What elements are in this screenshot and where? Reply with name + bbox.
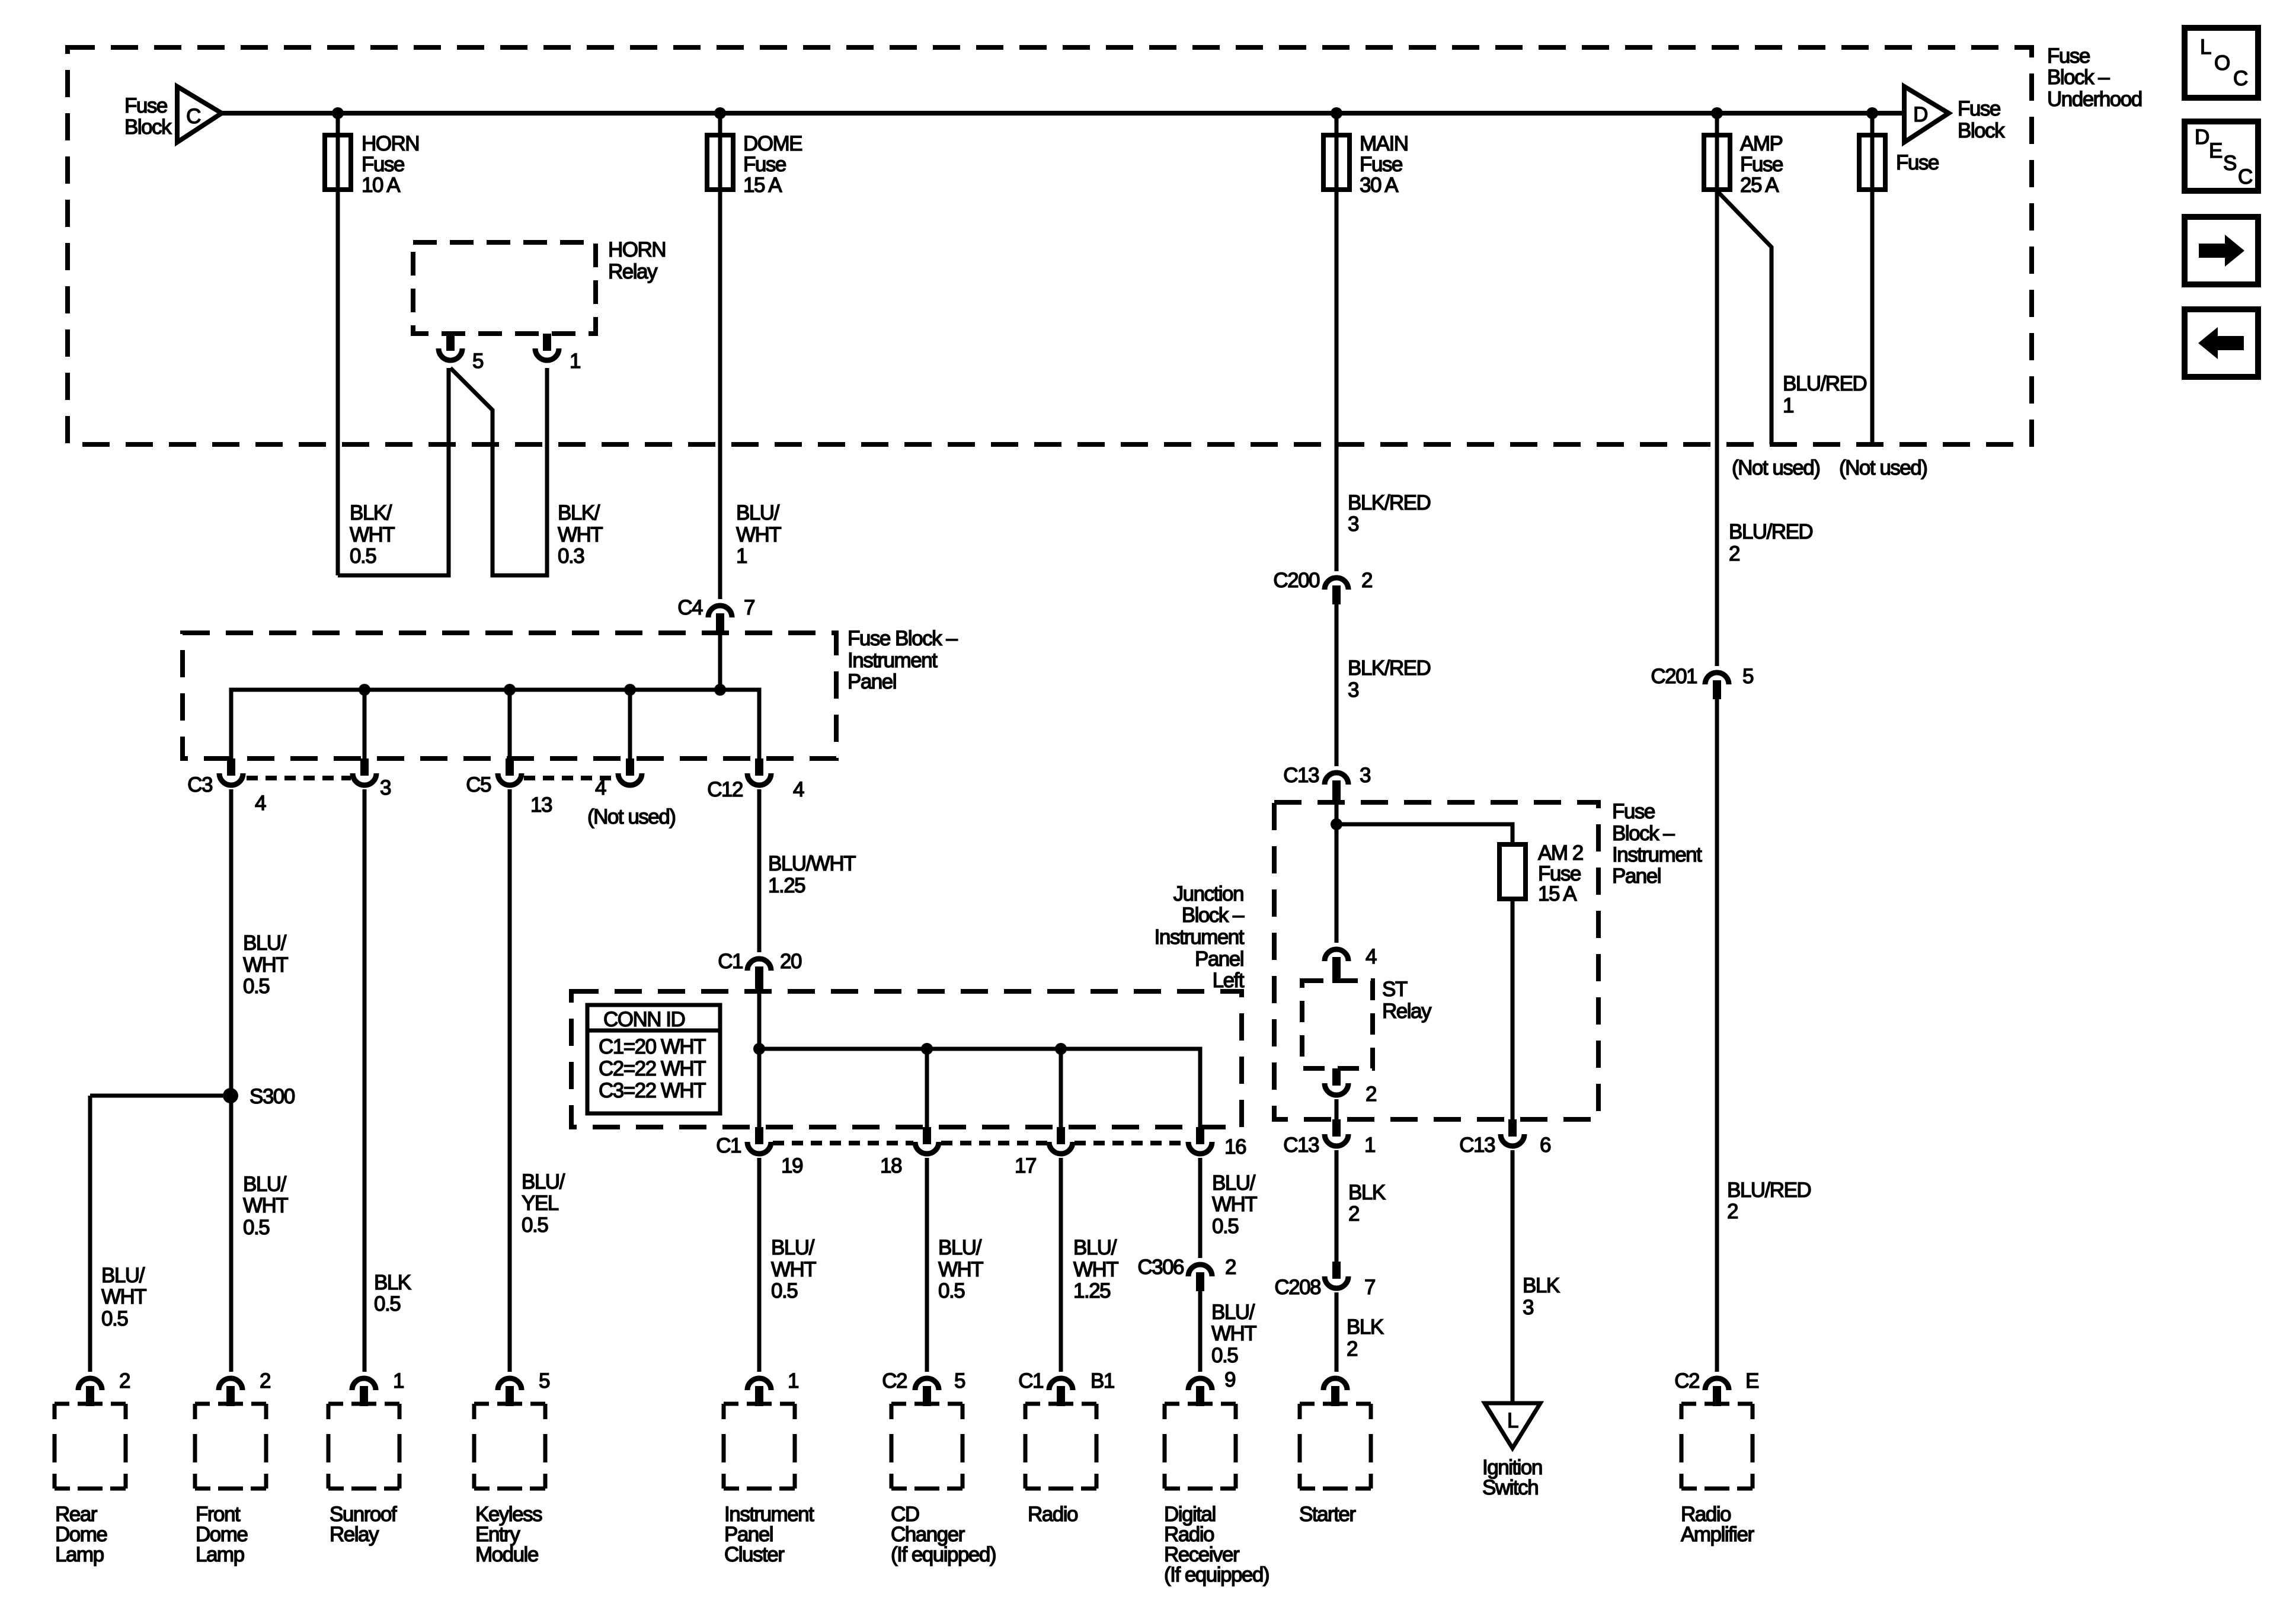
svg-text:ST: ST — [1382, 978, 1408, 1001]
junction dot — [921, 1043, 933, 1055]
svg-text:2: 2 — [260, 1369, 270, 1393]
dotted row C3-3 — [247, 776, 351, 780]
svg-text:L: L — [2200, 36, 2211, 59]
svg-text:C2: C2 — [1674, 1369, 1699, 1393]
wire C13-3 to ST relay pin4 — [1335, 805, 1339, 943]
wire C306 to digital radio receiver — [1198, 1289, 1203, 1372]
svg-text:3: 3 — [1360, 764, 1370, 787]
junction dot — [359, 684, 370, 696]
svg-text:C3=22 WHT: C3=22 WHT — [599, 1079, 706, 1102]
box Digital Radio Receiver — [1165, 1404, 1236, 1489]
svg-text:AM 2: AM 2 — [1538, 841, 1583, 865]
svg-text:Block: Block — [124, 116, 172, 139]
svg-text:Fuse: Fuse — [124, 94, 167, 117]
svg-text:C1: C1 — [716, 1134, 741, 1157]
connector C1 pin 20 — [747, 959, 771, 994]
wire tap pin4 not used — [628, 690, 632, 758]
svg-text:BLK/RED: BLK/RED — [1348, 491, 1430, 514]
wire 16 to C306 — [1198, 1158, 1203, 1258]
svg-text:2: 2 — [1729, 542, 1739, 565]
connector radio C1 pin B1 — [1049, 1378, 1073, 1406]
svg-text:Junction: Junction — [1173, 882, 1243, 905]
off-page triangle D fuse block — [1904, 87, 1949, 142]
svg-text:C: C — [186, 105, 200, 128]
svg-text:4: 4 — [255, 792, 266, 815]
svg-text:WHT: WHT — [558, 523, 603, 546]
connector C13 pin 3 — [1325, 773, 1348, 805]
svg-text:Instrument: Instrument — [1612, 843, 1702, 866]
dashed box Fuse Block - Underhood — [68, 47, 2032, 444]
svg-text:15 A: 15 A — [743, 174, 782, 197]
svg-text:BLU/: BLU/ — [101, 1264, 145, 1287]
svg-text:1: 1 — [736, 545, 747, 568]
junction dot — [332, 107, 344, 119]
svg-text:1: 1 — [393, 1369, 404, 1393]
wire pin5 to pin1 loop — [450, 368, 547, 575]
wire unnamed fuse not used — [1870, 113, 1875, 444]
wire AM2 fuse to C13-6 — [1511, 899, 1515, 1119]
svg-text:3: 3 — [1348, 513, 1358, 536]
junction dot — [714, 107, 726, 119]
box Radio — [1025, 1404, 1096, 1489]
svg-text:CONN ID: CONN ID — [603, 1008, 685, 1031]
junction dot — [1866, 107, 1878, 119]
wire C4 into IP fuse block — [718, 635, 722, 690]
svg-text:0.5: 0.5 — [1212, 1215, 1238, 1238]
box CD Changer — [891, 1404, 962, 1489]
svg-text:D: D — [2195, 126, 2209, 149]
svg-text:1.25: 1.25 — [1073, 1279, 1110, 1302]
svg-text:BLU/: BLU/ — [522, 1170, 565, 1193]
svg-text:BLK/: BLK/ — [558, 501, 600, 524]
connector C201 pin 5 — [1705, 673, 1729, 699]
connector rear dome lamp pin 2 — [78, 1378, 102, 1406]
box Sunroof Relay — [328, 1404, 399, 1489]
connector C306 pin 2 — [1188, 1265, 1212, 1291]
svg-text:E: E — [2209, 139, 2222, 162]
svg-text:C1: C1 — [1018, 1369, 1043, 1393]
svg-text:Block: Block — [1958, 119, 2005, 142]
svg-text:Relay: Relay — [330, 1523, 379, 1546]
connector horn relay pin 5 — [439, 334, 462, 360]
connector C3 pin 4 — [219, 758, 243, 785]
connector C4 pin 7 — [708, 606, 732, 635]
svg-text:2: 2 — [1347, 1337, 1357, 1361]
svg-text:C3: C3 — [187, 773, 212, 796]
svg-text:BLK: BLK — [1347, 1315, 1384, 1339]
svg-text:2: 2 — [1348, 1202, 1359, 1225]
junction dot — [714, 684, 726, 696]
wire main fuse to C200 — [1335, 113, 1339, 571]
svg-text:HORN: HORN — [608, 238, 666, 261]
svg-text:3: 3 — [1523, 1296, 1533, 1319]
svg-text:C4: C4 — [677, 596, 703, 619]
svg-text:Block –: Block – — [2047, 66, 2110, 89]
svg-text:Panel: Panel — [848, 670, 896, 693]
connector sunroof relay pin 1 — [352, 1378, 376, 1406]
dotted row C1 19-18 — [773, 1141, 913, 1145]
svg-text:YEL: YEL — [522, 1192, 559, 1215]
svg-text:Fuse: Fuse — [1740, 153, 1783, 176]
junction dot — [1711, 107, 1723, 119]
svg-text:WHT: WHT — [938, 1258, 983, 1281]
dashed box ST Relay — [1302, 981, 1373, 1068]
dashed box Fuse Block - Instrument Panel (right) — [1274, 802, 1598, 1119]
svg-text:BLU/: BLU/ — [771, 1236, 815, 1259]
svg-text:C13: C13 — [1283, 764, 1319, 787]
svg-text:15 A: 15 A — [1538, 882, 1577, 905]
svg-text:4: 4 — [595, 776, 606, 799]
dashed box Junction Block - Instrument Panel Left — [571, 991, 1242, 1127]
svg-text:0.5: 0.5 — [243, 975, 269, 998]
wire 18 to CD changer — [925, 1158, 929, 1372]
box Keyless Entry Module — [474, 1404, 545, 1489]
wire ST pin2 to C13-1 — [1335, 1099, 1339, 1119]
svg-text:7: 7 — [1364, 1276, 1375, 1299]
dashed box HORN Relay — [413, 242, 596, 334]
svg-text:C13: C13 — [1283, 1134, 1319, 1157]
wire C12-4 to C1-20 — [757, 789, 762, 952]
wire amp stub not used — [1717, 191, 1771, 444]
svg-text:Fuse: Fuse — [1612, 800, 1655, 823]
box Rear Dome Lamp — [55, 1404, 126, 1489]
svg-text:BLK/RED: BLK/RED — [1348, 657, 1430, 680]
svg-text:C12: C12 — [707, 778, 743, 801]
fuse HORN 10A — [325, 135, 351, 190]
svg-text:(If equipped): (If equipped) — [891, 1543, 996, 1566]
svg-text:BLU/RED: BLU/RED — [1729, 520, 1812, 543]
svg-text:13: 13 — [530, 793, 552, 817]
wire C3-4 to front dome lamp — [229, 789, 234, 1372]
svg-text:2: 2 — [1366, 1083, 1376, 1106]
connector C1 pin 19 — [747, 1127, 771, 1154]
off-page triangle L ignition switch — [1485, 1403, 1540, 1448]
wire C13-1 to C208 — [1335, 1150, 1339, 1262]
box Radio Amplifier — [1681, 1404, 1753, 1489]
svg-text:1: 1 — [570, 350, 580, 373]
svg-text:BLU/RED: BLU/RED — [1783, 372, 1866, 395]
dashed box Fuse Block - Instrument Panel — [183, 633, 836, 758]
fuse AM2 15A — [1499, 844, 1526, 899]
junction dot — [504, 684, 516, 696]
svg-text:Left: Left — [1213, 969, 1245, 992]
svg-text:WHT: WHT — [1212, 1193, 1257, 1216]
wire 17 to radio — [1059, 1158, 1063, 1372]
wire amp fuse to C201 — [1715, 113, 1719, 666]
connector instrument panel cluster pin 1 — [747, 1378, 771, 1406]
svg-text:BLU/: BLU/ — [1211, 1301, 1255, 1324]
svg-text:0.5: 0.5 — [938, 1279, 964, 1302]
svg-text:C208: C208 — [1274, 1276, 1320, 1299]
svg-text:BLK: BLK — [1523, 1274, 1560, 1297]
svg-text:Fuse Block –: Fuse Block – — [848, 627, 958, 650]
svg-text:BLK: BLK — [1348, 1181, 1386, 1204]
svg-text:20: 20 — [780, 950, 802, 973]
dotted row C5-4 — [524, 776, 616, 780]
svg-text:S300: S300 — [250, 1085, 295, 1108]
fuse AMP 25A — [1704, 135, 1730, 190]
svg-text:WHT: WHT — [771, 1258, 816, 1281]
svg-text:Fuse: Fuse — [1360, 153, 1402, 176]
svg-text:Lamp: Lamp — [196, 1543, 244, 1566]
connector pin 17 — [1049, 1127, 1073, 1154]
wire horn fuse drop — [336, 113, 340, 575]
svg-text:HORN: HORN — [362, 132, 419, 155]
wire tap 17 — [1059, 1049, 1063, 1127]
svg-text:6: 6 — [1540, 1134, 1550, 1157]
svg-text:(Not used): (Not used) — [587, 805, 675, 828]
wire S300 branch — [90, 1094, 231, 1098]
svg-text:BLU/: BLU/ — [1212, 1172, 1256, 1195]
svg-text:BLK/: BLK/ — [350, 501, 392, 524]
off-page triangle C fuse block — [177, 87, 222, 142]
svg-text:0.5: 0.5 — [771, 1279, 797, 1302]
fuse DOME 15A — [707, 135, 733, 190]
wire C5-13 to keyless entry module — [508, 789, 512, 1372]
wire dome fuse to C4 — [718, 113, 722, 599]
svg-text:(Not used): (Not used) — [1839, 456, 1927, 479]
svg-text:0.5: 0.5 — [522, 1214, 548, 1237]
svg-text:WHT: WHT — [243, 1194, 288, 1217]
svg-text:BLK: BLK — [374, 1271, 411, 1294]
svg-text:BLU/: BLU/ — [243, 932, 287, 955]
connector front dome lamp pin 2 — [219, 1378, 242, 1406]
fuse unnamed — [1859, 135, 1885, 190]
connector radio amplifier C2 pin E — [1705, 1378, 1729, 1406]
svg-text:Instrument: Instrument — [1155, 926, 1245, 949]
svg-text:4: 4 — [793, 778, 804, 801]
svg-text:(If equipped): (If equipped) — [1164, 1563, 1269, 1586]
svg-text:0.5: 0.5 — [101, 1307, 127, 1330]
svg-text:Block –: Block – — [1612, 822, 1675, 845]
svg-text:18: 18 — [880, 1154, 901, 1177]
svg-text:BLU/: BLU/ — [938, 1236, 982, 1259]
connector C12 pin 4 — [747, 758, 771, 785]
svg-text:Starter: Starter — [1299, 1503, 1356, 1526]
svg-text:BLU/: BLU/ — [1073, 1236, 1117, 1259]
button LOC — [2185, 28, 2258, 98]
button DESC — [2185, 121, 2258, 191]
svg-text:Instrument: Instrument — [848, 649, 938, 672]
svg-text:5: 5 — [539, 1369, 549, 1393]
svg-text:(Not used): (Not used) — [1732, 456, 1819, 479]
box Instrument Panel Cluster — [724, 1404, 795, 1489]
svg-text:2: 2 — [119, 1369, 130, 1393]
svg-text:3: 3 — [380, 776, 391, 799]
svg-text:C2: C2 — [882, 1369, 907, 1393]
connector C200 pin 2 — [1325, 578, 1348, 604]
svg-text:9: 9 — [1224, 1368, 1235, 1391]
svg-text:10 A: 10 A — [362, 174, 401, 197]
svg-text:5: 5 — [1742, 665, 1753, 688]
connector starter — [1323, 1378, 1347, 1406]
connector horn relay pin 1 — [535, 334, 559, 360]
dotted row 18-17 — [941, 1141, 1047, 1145]
svg-text:WHT: WHT — [101, 1285, 146, 1308]
svg-text:Lamp: Lamp — [55, 1543, 104, 1566]
wire tap 18 — [925, 1049, 929, 1127]
svg-text:Switch: Switch — [1482, 1476, 1538, 1499]
connector C5 pin 13 — [498, 758, 522, 785]
wire pin3 to sunroof relay — [363, 789, 367, 1372]
svg-text:WHT: WHT — [243, 953, 288, 977]
svg-text:Fuse: Fuse — [743, 153, 786, 176]
wire main bus — [222, 111, 1904, 116]
svg-text:Relay: Relay — [608, 260, 658, 283]
svg-text:S: S — [2223, 152, 2236, 175]
junction dot — [1331, 818, 1342, 830]
junction dot — [624, 684, 636, 696]
svg-text:0.5: 0.5 — [1211, 1344, 1237, 1367]
svg-text:1: 1 — [1364, 1134, 1375, 1157]
svg-text:1: 1 — [1783, 394, 1793, 417]
connector pin 16 — [1188, 1127, 1212, 1154]
wire horn loop to pin 5 — [338, 368, 449, 575]
svg-text:BLU/: BLU/ — [736, 501, 780, 524]
svg-text:BLU/WHT: BLU/WHT — [768, 852, 856, 875]
svg-text:B1: B1 — [1091, 1369, 1114, 1393]
button arrow right — [2185, 217, 2258, 284]
fuse MAIN 30A — [1323, 135, 1350, 190]
connector pin 18 — [915, 1127, 939, 1154]
svg-text:D: D — [1913, 103, 1927, 126]
svg-text:Fuse: Fuse — [362, 153, 404, 176]
svg-text:5: 5 — [472, 350, 483, 373]
svg-text:C1=20 WHT: C1=20 WHT — [599, 1035, 706, 1058]
button arrow left — [2185, 309, 2258, 377]
connector C208 pin 7 — [1325, 1262, 1348, 1288]
wire to rear dome lamp — [88, 1096, 92, 1372]
svg-text:AMP: AMP — [1740, 132, 1783, 155]
wire branch to AM2 fuse — [1336, 824, 1512, 844]
svg-text:O: O — [2214, 52, 2230, 75]
svg-text:C: C — [2233, 67, 2247, 90]
connector CD changer C2 pin 5 — [915, 1378, 939, 1406]
svg-text:2: 2 — [1727, 1200, 1738, 1223]
svg-text:C5: C5 — [466, 773, 491, 796]
svg-text:Module: Module — [475, 1543, 538, 1566]
svg-text:C13: C13 — [1459, 1134, 1495, 1157]
junction dot — [1331, 107, 1342, 119]
svg-text:25 A: 25 A — [1740, 174, 1779, 197]
connector pin 3 — [353, 758, 376, 785]
svg-text:Block –: Block – — [1182, 904, 1245, 927]
svg-text:C306: C306 — [1137, 1256, 1184, 1279]
svg-text:2: 2 — [1361, 569, 1372, 592]
connector pin 4 not used — [618, 758, 642, 785]
svg-text:Fuse: Fuse — [2047, 44, 2090, 68]
svg-text:C201: C201 — [1651, 665, 1697, 688]
svg-text:0.5: 0.5 — [350, 545, 376, 568]
junction dot — [1055, 1043, 1067, 1055]
junction dot — [753, 1043, 765, 1055]
svg-text:Fuse: Fuse — [1958, 97, 2000, 120]
wire C1-19 to instrument panel cluster — [757, 1158, 762, 1372]
connector C13 pin 6 — [1501, 1119, 1524, 1146]
svg-text:Underhood: Underhood — [2047, 88, 2142, 111]
svg-text:DOME: DOME — [743, 132, 802, 155]
svg-text:0.3: 0.3 — [558, 545, 584, 568]
CONN ID table — [587, 1005, 720, 1113]
svg-text:WHT: WHT — [1073, 1258, 1118, 1281]
svg-text:C1: C1 — [718, 950, 743, 973]
connector keyless entry pin 5 — [498, 1378, 522, 1406]
box Starter — [1300, 1404, 1371, 1489]
svg-text:C: C — [2238, 165, 2252, 188]
svg-text:BLU/RED: BLU/RED — [1727, 1179, 1811, 1202]
svg-text:Cluster: Cluster — [724, 1543, 785, 1566]
svg-text:WHT: WHT — [350, 523, 395, 546]
svg-text:E: E — [1745, 1369, 1758, 1393]
svg-text:0.5: 0.5 — [374, 1292, 400, 1315]
svg-text:3: 3 — [1348, 678, 1358, 702]
svg-text:4: 4 — [1366, 945, 1377, 968]
connector ST relay pin 4 — [1325, 949, 1348, 983]
wire C208 to starter — [1335, 1292, 1339, 1372]
svg-text:WHT: WHT — [1211, 1322, 1256, 1345]
svg-text:BLU/: BLU/ — [243, 1173, 287, 1196]
svg-text:WHT: WHT — [736, 523, 781, 546]
wire junction block bus — [759, 1049, 1200, 1127]
wire tap C5 — [508, 690, 512, 758]
splice S300 — [223, 1088, 238, 1103]
connector digital radio receiver pin 9 — [1188, 1378, 1212, 1406]
svg-text:Panel: Panel — [1195, 948, 1243, 971]
connector ST relay pin 2 — [1325, 1068, 1348, 1095]
svg-text:1: 1 — [788, 1369, 798, 1393]
svg-text:Relay: Relay — [1382, 1000, 1432, 1023]
svg-text:2: 2 — [1225, 1256, 1236, 1279]
wire IP fuse block bus — [231, 690, 759, 758]
wire C1-20 through junction block — [757, 994, 762, 1127]
svg-text:C2=22 WHT: C2=22 WHT — [599, 1057, 706, 1080]
box Front Dome Lamp — [195, 1404, 266, 1489]
svg-text:5: 5 — [954, 1369, 965, 1393]
svg-text:C200: C200 — [1273, 569, 1320, 592]
wire tap pin3 — [363, 690, 367, 758]
svg-text:19: 19 — [781, 1154, 802, 1177]
dotted row 17-16 — [1075, 1141, 1187, 1145]
svg-text:MAIN: MAIN — [1360, 132, 1408, 155]
wire C13-6 to ignition switch — [1511, 1150, 1515, 1403]
svg-text:17: 17 — [1015, 1154, 1036, 1177]
svg-text:L: L — [1507, 1409, 1518, 1432]
svg-text:0.5: 0.5 — [243, 1216, 269, 1239]
connector C13 pin 1 — [1325, 1119, 1348, 1146]
svg-text:16: 16 — [1224, 1135, 1246, 1158]
svg-text:7: 7 — [744, 596, 754, 619]
svg-text:30 A: 30 A — [1360, 174, 1399, 197]
svg-text:Radio: Radio — [1028, 1503, 1077, 1526]
wire C200 to C13-3 — [1335, 603, 1339, 766]
svg-text:Fuse: Fuse — [1896, 151, 1939, 174]
svg-text:1.25: 1.25 — [768, 874, 805, 897]
wire C201 to radio amplifier — [1715, 699, 1719, 1372]
svg-text:Panel: Panel — [1612, 865, 1661, 888]
svg-text:Amplifier: Amplifier — [1681, 1523, 1754, 1546]
